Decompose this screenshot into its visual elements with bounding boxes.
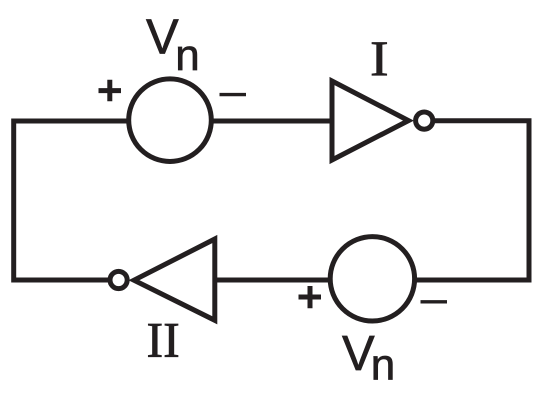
wire top-left (left rail to Vn source): [14, 121, 129, 280]
wire top-middle (Vn source to inverter I): [209, 119, 333, 124]
svg-text:n: n: [371, 341, 395, 390]
wire bottom-middle (bottom Vn source to inverter II): [214, 278, 329, 283]
svg-text:I: I: [370, 32, 389, 87]
svg-text:V: V: [146, 11, 179, 65]
minus sign (top source, - terminal): [220, 93, 247, 96]
inverter II bubble: [110, 271, 127, 288]
label Vn (bottom source): [342, 327, 395, 390]
plus sign (top source, + terminal): [99, 80, 122, 101]
op-amp / inverter I triangle: [332, 81, 409, 160]
svg-text:n: n: [175, 31, 199, 80]
voltage source Vn (top): [129, 79, 212, 162]
inverter I bubble: [416, 112, 433, 129]
plus sign (bottom source, + terminal): [299, 286, 322, 308]
wire right rail (inverter I output to bottom Vn source): [416, 121, 529, 280]
minus sign (bottom source, - terminal): [421, 300, 448, 303]
label Vn (top source): [146, 11, 200, 80]
voltage source Vn (bottom): [330, 237, 414, 321]
inverter II triangle: [134, 239, 215, 320]
svg-text:II: II: [147, 312, 180, 368]
